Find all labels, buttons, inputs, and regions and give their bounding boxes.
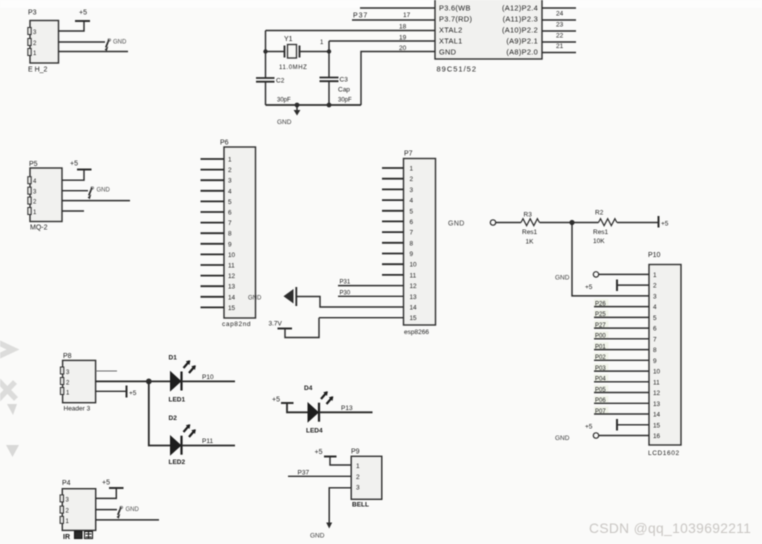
LED D2 <box>169 415 196 466</box>
wire P3 pin1 <box>59 51 129 53</box>
power +5 for P4 <box>96 480 124 499</box>
svg-text:BELL: BELL <box>352 502 369 509</box>
wire bottom xtal gnd rail <box>266 104 362 106</box>
wire P6 pin 13 <box>201 285 225 287</box>
wire P6 pin 9 <box>201 243 225 245</box>
wire P6 pin 5 <box>201 200 225 202</box>
wire P8 pin1 to +5 <box>96 390 127 392</box>
wire P6 pin 7 <box>201 222 225 224</box>
svg-text:GND: GND <box>310 533 325 540</box>
wire D2 cathode <box>182 445 236 447</box>
connector P6 <box>220 140 256 319</box>
wire P6 pin 11 <box>201 264 225 266</box>
svg-text:6: 6 <box>653 326 657 333</box>
svg-text:E H_2: E H_2 <box>28 67 48 74</box>
connector P8 <box>60 353 95 403</box>
wire P10 pin 10 <box>594 370 649 372</box>
terminal circle P10 pin16 <box>593 433 598 438</box>
wire P7 pin 5 <box>382 210 404 212</box>
node P26 net label <box>594 299 609 306</box>
LED D4 <box>304 385 333 435</box>
svg-text:30pF: 30pF <box>277 98 291 104</box>
wire P10 pin 14 <box>594 413 649 415</box>
ground GND label P4 <box>117 507 140 519</box>
svg-text:D1: D1 <box>169 355 178 362</box>
svg-text:3: 3 <box>228 178 232 185</box>
wire P7 pin 6 <box>382 220 404 222</box>
connector P7 <box>404 151 436 326</box>
svg-text:3: 3 <box>653 293 657 300</box>
svg-text:10K: 10K <box>593 238 605 245</box>
svg-text:IR: IR <box>63 534 70 541</box>
svg-text:Cap: Cap <box>338 87 350 94</box>
svg-text:5: 5 <box>228 199 232 206</box>
wire P7 pin 4 <box>382 199 404 201</box>
wire P9 pin3 to ground <box>329 488 351 524</box>
svg-text:P37: P37 <box>353 13 368 20</box>
ground arrow below P9 <box>310 523 332 540</box>
wire U1 right pin row a <box>542 7 576 9</box>
svg-text:7: 7 <box>653 336 657 343</box>
wire U1 pin17 <box>352 19 435 21</box>
wire P6 pin 14 <box>201 296 225 298</box>
svg-text:2: 2 <box>410 176 414 183</box>
svg-text:GND: GND <box>555 435 570 442</box>
wire P8 pin2 to LED D1 <box>96 380 170 382</box>
svg-text:GND: GND <box>248 296 262 302</box>
svg-text:Res1: Res1 <box>522 229 538 236</box>
wire P7 pin 7 <box>382 231 404 233</box>
svg-text:7: 7 <box>410 230 414 237</box>
node P02 net label <box>594 353 609 360</box>
svg-text:R3: R3 <box>524 212 533 219</box>
resistor R2 <box>593 210 617 245</box>
svg-text:cap82nd: cap82nd <box>222 321 251 328</box>
node P27 net label <box>594 321 609 328</box>
svg-text:17: 17 <box>403 12 411 19</box>
svg-text:+5: +5 <box>661 220 669 227</box>
svg-text:89C51/52: 89C51/52 <box>437 65 478 74</box>
connector P10 <box>648 252 681 445</box>
svg-text:P10: P10 <box>202 374 214 381</box>
wire U1 right pin 23 <box>542 30 576 32</box>
svg-text:(A10)P2.2: (A10)P2.2 <box>502 26 538 35</box>
svg-text:8: 8 <box>653 347 657 354</box>
wire P10 pin 4 <box>594 306 649 308</box>
wire P7 pin 15 <box>319 317 404 319</box>
svg-text:LED1: LED1 <box>169 397 186 404</box>
node P06 net label <box>594 396 609 403</box>
svg-text:15: 15 <box>653 422 661 429</box>
svg-text:LCD1602: LCD1602 <box>648 450 680 457</box>
svg-text:16: 16 <box>653 433 661 440</box>
svg-text:3.7V: 3.7V <box>269 321 283 328</box>
svg-text:5: 5 <box>653 315 657 322</box>
svg-text:P3.7(RD): P3.7(RD) <box>439 15 472 24</box>
wire P10 pin2 <box>617 284 649 286</box>
wire junction down to P10 pin3 <box>572 223 649 296</box>
wire P10 pin 7 <box>594 338 649 340</box>
svg-text:11: 11 <box>410 272 417 279</box>
svg-text:15: 15 <box>228 305 236 312</box>
svg-text:Header 3: Header 3 <box>64 406 91 413</box>
wire P10 pin 9 <box>594 359 649 361</box>
node P04 net label <box>594 374 609 381</box>
svg-text:P9: P9 <box>351 449 360 456</box>
wire R2 to +5 <box>617 222 659 224</box>
terminal circle <box>490 220 495 225</box>
wire P6 pin 10 <box>201 253 225 255</box>
svg-text:14: 14 <box>228 294 236 301</box>
svg-text:3: 3 <box>356 485 360 492</box>
wire P6 pin 12 <box>201 275 225 277</box>
svg-text:D2: D2 <box>169 415 178 422</box>
wire D1 cathode to P10 label <box>182 380 236 382</box>
power +5 for P3 <box>59 10 91 32</box>
svg-text:C3: C3 <box>340 77 349 84</box>
node P07 net label <box>594 407 609 414</box>
svg-text:P5: P5 <box>29 161 38 168</box>
svg-text:P31: P31 <box>340 280 351 286</box>
wire P3 pin2 <box>59 41 106 43</box>
svg-text:13: 13 <box>410 294 418 301</box>
node junction crystal left <box>263 49 267 53</box>
resistor R3 <box>521 212 539 246</box>
svg-text:7: 7 <box>228 220 232 227</box>
svg-text:XTAL1: XTAL1 <box>439 37 463 46</box>
svg-text:2: 2 <box>356 474 360 481</box>
svg-text:CSDN @qq_1039692211: CSDN @qq_1039692211 <box>589 521 751 536</box>
svg-text:23: 23 <box>556 22 564 29</box>
svg-text:P13: P13 <box>341 405 353 412</box>
node P01 net label <box>594 342 609 349</box>
svg-text:(A12)P2.4: (A12)P2.4 <box>502 4 538 13</box>
wire GND pin20 <box>361 52 435 106</box>
svg-text:+5: +5 <box>70 161 78 168</box>
wire P6 pin 1 <box>201 158 225 160</box>
node junction C2 gnd <box>295 103 300 108</box>
crystal Y1 <box>266 36 330 71</box>
wire P6 pin 8 <box>201 232 225 234</box>
wire P10 pin 8 <box>594 349 649 351</box>
svg-text:8: 8 <box>410 240 414 247</box>
wire P6 pin 3 <box>201 179 225 181</box>
node P00 net label <box>594 331 609 338</box>
svg-text:GND: GND <box>126 507 140 513</box>
wire C3 vertical top <box>328 41 330 77</box>
power +5 P10 pin15 <box>585 419 617 431</box>
svg-text:4: 4 <box>228 188 232 195</box>
svg-text:+5: +5 <box>129 390 137 397</box>
svg-text:9: 9 <box>410 251 414 258</box>
wire P7 pin 10 <box>382 263 404 265</box>
svg-text:+5: +5 <box>585 424 593 431</box>
svg-text:+5: +5 <box>315 449 323 456</box>
svg-text:12: 12 <box>653 390 661 397</box>
svg-text:24: 24 <box>556 11 564 18</box>
P4 bottom label <box>63 532 93 542</box>
svg-text:4: 4 <box>653 304 657 311</box>
power +5 for D4 <box>272 397 308 413</box>
wire P6 pin 4 <box>201 190 225 192</box>
svg-text:14: 14 <box>653 412 661 419</box>
ground symbol below crystal rail <box>277 105 300 126</box>
ground GND label P5 <box>88 187 111 199</box>
wire P10 pin 11 <box>594 381 649 383</box>
svg-text:1: 1 <box>410 166 414 173</box>
svg-text:Res1: Res1 <box>593 229 609 236</box>
wire U1 pin16 row <box>360 7 435 9</box>
svg-text:18: 18 <box>399 24 407 31</box>
wire U1 right pin 24 <box>542 19 576 21</box>
svg-text:GND: GND <box>448 220 465 227</box>
connector P9 <box>351 449 382 500</box>
terminal circle P10 pin1 <box>593 272 598 277</box>
wire XTAL1 pin19 <box>329 40 435 42</box>
wire junction down to LED D2 <box>149 381 170 445</box>
svg-text:5: 5 <box>410 208 414 215</box>
node P05 net label <box>594 385 609 392</box>
svg-text:12: 12 <box>228 273 236 280</box>
LED D1 <box>169 355 196 404</box>
svg-text:LED2: LED2 <box>169 459 186 466</box>
wire P7 pin 14 from ground arrow <box>297 297 404 308</box>
svg-text:9: 9 <box>653 358 657 365</box>
svg-text:1: 1 <box>356 463 360 470</box>
svg-text:P: P <box>90 187 94 193</box>
svg-text:12: 12 <box>410 283 418 290</box>
svg-text:1K: 1K <box>526 238 535 245</box>
wire P5 pin3 <box>62 190 88 192</box>
svg-text:R2: R2 <box>595 210 604 217</box>
wire P7 pin 11 <box>382 274 404 276</box>
svg-text:11.0MHZ: 11.0MHZ <box>279 65 307 71</box>
svg-text:P6: P6 <box>220 140 229 147</box>
wire P5 pin2 long <box>62 200 130 202</box>
wire P10 pin 13 <box>594 402 649 404</box>
svg-text:esp8266: esp8266 <box>404 329 429 336</box>
svg-text:15: 15 <box>410 315 418 322</box>
IC U1 MCU 89C51/52 <box>435 0 542 59</box>
wire P10 pin 5 <box>594 316 649 318</box>
svg-text:11: 11 <box>653 379 660 386</box>
svg-text:GND: GND <box>439 48 456 57</box>
svg-text:10: 10 <box>653 369 661 376</box>
wire P10 pin16 <box>599 435 649 437</box>
svg-text:LED4: LED4 <box>306 428 323 435</box>
wire U1 right pin 21 <box>542 52 576 54</box>
svg-text:C2: C2 <box>276 78 285 85</box>
wire P6 pin 6 <box>201 211 225 213</box>
wire P10 pin1 <box>599 273 649 275</box>
svg-text:3: 3 <box>410 187 414 194</box>
svg-text:P: P <box>107 39 111 45</box>
svg-text:(A8)P2.0: (A8)P2.0 <box>506 48 538 57</box>
power +5 for P5 <box>62 161 92 181</box>
power +5 at P8 pin1 <box>127 386 137 398</box>
wire terminal to R3 <box>496 222 521 224</box>
svg-text:(A9)P2.1: (A9)P2.1 <box>506 37 538 46</box>
wire R3 to junction <box>540 222 599 224</box>
node P03 net label <box>594 364 609 371</box>
svg-text:Y1: Y1 <box>284 36 293 43</box>
wire P10 pin 6 <box>594 327 649 329</box>
svg-text:XTAL2: XTAL2 <box>439 26 463 35</box>
svg-text:22: 22 <box>556 33 564 40</box>
svg-text:8: 8 <box>228 231 232 238</box>
svg-text:1: 1 <box>228 157 232 164</box>
power +5 P10 pin2 <box>585 280 617 292</box>
svg-text:P3.6(WB: P3.6(WB <box>439 4 471 13</box>
power +5 right of R2 <box>659 216 669 228</box>
svg-text:GND: GND <box>97 188 111 194</box>
wire P7 pin 9 <box>382 253 404 255</box>
decorative watermark chevrons (not labeled further) <box>0 341 16 406</box>
power +5 for P9 <box>315 449 352 465</box>
svg-text:P: P <box>119 507 123 513</box>
wire D4 cathode <box>319 411 373 413</box>
wire P7 pin 1 <box>382 167 404 169</box>
svg-text:10: 10 <box>410 262 418 269</box>
wire P10 pin15 <box>617 424 649 426</box>
wire P7 pin 12 <box>338 285 404 287</box>
svg-text:MQ-2: MQ-2 <box>30 225 48 232</box>
svg-text:(A11)P2.3: (A11)P2.3 <box>503 15 538 24</box>
capacitor C3 <box>320 77 353 106</box>
svg-text:13: 13 <box>228 284 236 291</box>
svg-text:6: 6 <box>228 210 232 217</box>
power 3.7V supply <box>269 318 320 338</box>
svg-text:P37: P37 <box>298 470 310 477</box>
svg-text:11: 11 <box>228 263 235 270</box>
svg-text:13: 13 <box>653 401 661 408</box>
wire P7 pin 2 <box>382 178 404 180</box>
svg-text:P4: P4 <box>62 480 71 487</box>
wire P10 pin 12 <box>594 392 649 394</box>
wire P4 pin1 long <box>96 519 159 521</box>
svg-text:30pF: 30pF <box>338 98 352 104</box>
wire P4 pin2 <box>96 509 117 511</box>
svg-text:P8: P8 <box>63 353 72 360</box>
wire XTAL2 pin18 <box>266 30 436 32</box>
svg-text:+5: +5 <box>585 284 593 291</box>
svg-text:GND: GND <box>277 119 292 126</box>
connector P4 <box>60 480 96 530</box>
node junction LED feed <box>146 379 152 385</box>
svg-text:P7: P7 <box>404 151 413 158</box>
wire P5 pin1 <box>62 210 84 212</box>
svg-text:P3: P3 <box>28 10 37 17</box>
connector P3 <box>28 10 59 64</box>
node junction R3 R2 <box>569 220 574 225</box>
wire P8 pin3 stub <box>96 370 117 372</box>
svg-text:10: 10 <box>228 252 236 259</box>
svg-text:1: 1 <box>653 272 657 279</box>
svg-text:2: 2 <box>653 283 657 290</box>
wire P7 pin 8 <box>382 242 404 244</box>
svg-text:9: 9 <box>228 241 232 248</box>
connector P5 <box>28 161 62 222</box>
svg-text:+5: +5 <box>102 480 110 487</box>
wire P9 pin2 <box>288 475 351 477</box>
node junction crystal right <box>327 49 331 53</box>
svg-text:P10: P10 <box>648 252 661 259</box>
ground arrow symbol left of P7 <box>284 287 297 306</box>
wire P6 pin 2 <box>201 169 225 171</box>
node P25 net label <box>594 310 609 317</box>
capacitor C2 <box>256 78 291 104</box>
svg-text:14: 14 <box>410 305 418 312</box>
svg-text:P11: P11 <box>202 438 213 445</box>
wire P7 pin 13 <box>338 295 404 297</box>
wire U1 right pin 22 <box>542 41 576 43</box>
svg-text:+5: +5 <box>79 10 87 17</box>
svg-text:GND: GND <box>555 275 570 282</box>
svg-text:2: 2 <box>228 167 232 174</box>
svg-text:+5: +5 <box>272 397 280 404</box>
ground GND label P3 <box>105 39 127 51</box>
svg-text:6: 6 <box>410 219 414 226</box>
svg-text:D4: D4 <box>304 385 313 392</box>
svg-text:21: 21 <box>556 43 564 50</box>
wire P6 pin 15 <box>201 306 225 308</box>
node junction C3 gnd <box>327 103 332 108</box>
wire P7 pin 3 <box>382 188 404 190</box>
wire crystal left vertical <box>265 31 267 78</box>
svg-text:4: 4 <box>410 198 414 205</box>
svg-text:GND: GND <box>113 40 127 46</box>
